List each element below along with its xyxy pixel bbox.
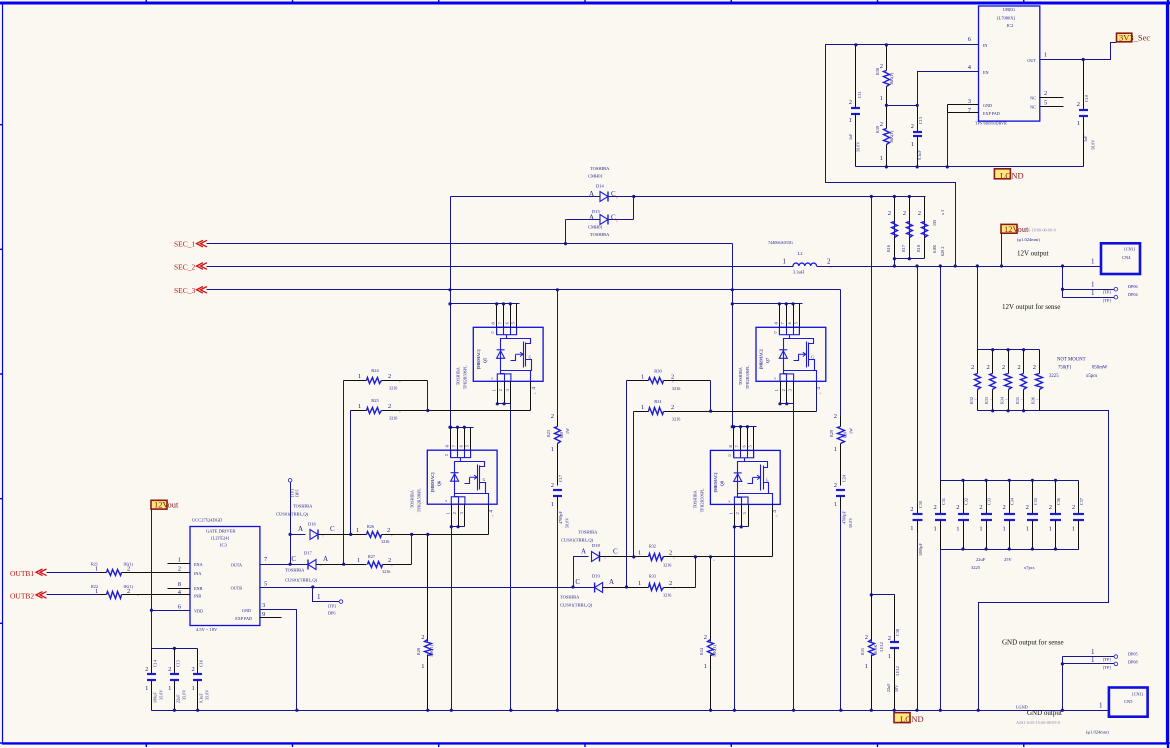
svg-text:UCC27524DGD: UCC27524DGD: [192, 518, 223, 523]
svg-text:1: 1: [1077, 120, 1080, 127]
svg-text:2: 2: [956, 504, 959, 511]
svg-text:C24: C24: [842, 474, 847, 482]
svg-text:2: 2: [934, 504, 937, 511]
svg-text:2: 2: [551, 482, 554, 489]
svg-text:2: 2: [178, 566, 181, 573]
svg-text:36K(F): 36K(F): [889, 72, 894, 85]
node LGND label top: [994, 169, 1010, 179]
svg-text:≡: ≡: [776, 514, 778, 518]
svg-text:—: —: [1035, 397, 1040, 401]
svg-text:2: 2: [888, 210, 891, 217]
svg-text:2: 2: [1077, 101, 1080, 108]
svg-text:2: 2: [551, 413, 554, 420]
svg-text:≡: ≡: [713, 559, 715, 563]
svg-text:CN5: CN5: [1124, 699, 1133, 704]
svg-text:22uF: 22uF: [976, 557, 986, 562]
svg-text:1: 1: [357, 557, 360, 564]
svg-text:3: 3: [262, 602, 265, 609]
svg-text:1: 1: [1026, 526, 1029, 533]
svg-text:DP5: DP5: [295, 490, 300, 497]
svg-text:1: 1: [445, 512, 450, 514]
svg-text:1: 1: [910, 525, 913, 532]
svg-text:≡: ≡: [399, 380, 401, 384]
resistor R33 not-mount: [992, 350, 994, 374]
svg-text:Q6: Q6: [436, 481, 441, 486]
wire OUTA: [260, 564, 309, 566]
svg-text:12V output: 12V output: [1017, 250, 1049, 258]
node 12Vout label IC3: [151, 500, 167, 509]
svg-text:R33: R33: [649, 574, 656, 579]
svg-text:Q8: Q8: [719, 481, 724, 486]
svg-text:C35: C35: [1033, 498, 1038, 505]
svg-text:GND output: GND output: [1027, 709, 1062, 717]
svg-text:1: 1: [1091, 289, 1095, 297]
svg-text:1: 1: [641, 373, 644, 380]
resistor R36: [871, 595, 873, 642]
svg-text:1: 1: [888, 653, 891, 660]
wire D15 anode to SEC_1: [565, 220, 567, 244]
svg-text:2: 2: [1072, 504, 1075, 511]
capacitor C35: [1032, 481, 1034, 514]
svg-text:IC2: IC2: [1007, 23, 1014, 28]
svg-text:2: 2: [903, 210, 906, 217]
svg-text:R36: R36: [1031, 397, 1036, 404]
wire SEC_2 to L2: [207, 266, 794, 268]
wire ENB stub: [168, 588, 191, 590]
svg-text:3V3_Sec: 3V3_Sec: [1119, 33, 1150, 43]
svg-text:1: 1: [1002, 526, 1005, 533]
wire R16-R18 bottom bus: [895, 258, 925, 260]
svg-text:A: A: [581, 548, 586, 556]
svg-text:2: 2: [834, 482, 837, 489]
svg-text:SEC_3: SEC_3: [174, 286, 196, 295]
wire 12V sense: [1062, 267, 1064, 298]
svg-text:A2S1-0:05-15:00-00-03-0: A2S1-0:05-15:00-00-03-0: [1016, 720, 1060, 725]
wire cap bank bottom to GND: [940, 550, 942, 711]
svg-text:[CN1]: [CN1]: [1124, 247, 1135, 252]
svg-text:C34: C34: [1010, 497, 1015, 505]
svg-text:S: S: [491, 376, 493, 380]
svg-text:LGND: LGND: [900, 714, 924, 724]
svg-text:1: 1: [168, 685, 171, 692]
svg-text:10K(1): 10K(1): [429, 644, 434, 657]
svg-text:C: C: [330, 525, 335, 533]
svg-text:C13: C13: [918, 117, 923, 124]
svg-text:TOSHIBA: TOSHIBA: [590, 166, 610, 171]
svg-text:4: 4: [488, 510, 494, 513]
svg-text:≡: ≡: [673, 557, 675, 561]
svg-text:NOT MOUNT: NOT MOUNT: [1057, 358, 1086, 363]
svg-text:UREG: UREG: [1003, 7, 1016, 12]
capacitor C30: [917, 267, 919, 505]
svg-text:C16: C16: [199, 660, 204, 667]
svg-text:2: 2: [911, 123, 914, 130]
svg-text:IC3: IC3: [220, 543, 228, 548]
svg-text:TOSHIBA: TOSHIBA: [293, 504, 313, 509]
svg-text:[TP]: [TP]: [1103, 657, 1111, 662]
svg-text:1uF: 1uF: [848, 133, 853, 140]
svg-text:(φ1.024mm): (φ1.024mm): [1086, 730, 1109, 735]
svg-text:1: 1: [638, 580, 641, 587]
svg-text:EXP PAD: EXP PAD: [235, 616, 252, 621]
svg-text:4700pF: 4700pF: [558, 511, 563, 524]
svg-text:1: 1: [178, 556, 181, 563]
svg-text:2: 2: [1017, 364, 1020, 371]
svg-text:GND: GND: [983, 103, 992, 108]
svg-text:2: 2: [1026, 504, 1029, 511]
svg-text:NC: NC: [1030, 105, 1036, 110]
resistor R26: [367, 532, 382, 538]
svg-text:2: 2: [865, 634, 868, 641]
svg-text:C17: C17: [558, 475, 563, 482]
svg-text:2: 2: [979, 504, 982, 511]
svg-text:1: 1: [641, 404, 644, 411]
svg-text:2: 2: [669, 580, 672, 587]
svg-text:Q5: Q5: [482, 358, 487, 363]
capacitor C15: [174, 649, 176, 674]
svg-text:2: 2: [910, 506, 913, 513]
svg-text:≡: ≡: [672, 380, 674, 384]
svg-text:CN4: CN4: [1122, 255, 1131, 260]
svg-text:A: A: [589, 190, 594, 198]
svg-text:≡: ≡: [391, 564, 393, 568]
svg-text:≡: ≡: [399, 410, 401, 414]
svg-text:R25: R25: [371, 398, 379, 403]
svg-text:3216: 3216: [382, 569, 390, 574]
svg-text:≡: ≡: [673, 587, 675, 591]
svg-text:A: A: [323, 555, 328, 563]
wire EXP PAD stub: [260, 617, 282, 619]
resistor R31: [634, 411, 649, 413]
wire Q7 source down: [793, 404, 795, 711]
svg-text:(φ1.024mm): (φ1.024mm): [1017, 237, 1040, 242]
wire cap bank top feed: [940, 267, 942, 481]
resistor R29 snubber right: [840, 290, 842, 416]
svg-text:[TP]: [TP]: [1103, 665, 1111, 670]
svg-text:1: 1: [911, 141, 914, 148]
svg-text:2: 2: [971, 364, 974, 371]
svg-text:2: 2: [452, 512, 457, 514]
svg-text:C33: C33: [987, 498, 992, 505]
svg-text:1: 1: [783, 258, 787, 266]
svg-text:2: 2: [781, 389, 786, 391]
wire R25 vert: [350, 411, 352, 535]
resistor R33: [649, 584, 664, 591]
svg-text:OUT: OUT: [1027, 58, 1036, 63]
svg-text:[MRMAC]: [MRMAC]: [430, 472, 435, 492]
resistor R18: [924, 197, 926, 259]
transistor Q5: [455, 304, 543, 411]
resistor R28: [427, 535, 429, 642]
wire Q7 top bus: [733, 303, 803, 305]
svg-text:1: 1: [1091, 281, 1095, 289]
test pad DP5: [288, 479, 292, 483]
svg-text:A: A: [609, 578, 614, 586]
svg-text:2: 2: [880, 121, 883, 128]
wire IC3 GND: [260, 610, 297, 711]
svg-text:C30: C30: [918, 501, 923, 508]
svg-text:750(F): 750(F): [1058, 366, 1071, 371]
svg-text:2: 2: [888, 635, 891, 642]
resistor R21: [47, 572, 100, 574]
svg-text:—: —: [973, 397, 978, 401]
svg-text:EXP PAD: EXP PAD: [983, 111, 1000, 116]
svg-text:2: 2: [127, 588, 130, 595]
wire 12V rail: [817, 266, 1102, 268]
node 3V3_Sec label: [1117, 33, 1132, 42]
svg-text:50.0V: 50.0V: [565, 518, 570, 528]
svg-text:1: 1: [834, 501, 837, 508]
svg-text:3216: 3216: [672, 417, 680, 422]
svg-text:C: C: [613, 548, 618, 556]
svg-text:2: 2: [387, 527, 390, 534]
svg-text:22uF: 22uF: [886, 683, 891, 692]
capacitor C32: [963, 481, 965, 514]
svg-text:620 2: 620 2: [940, 247, 945, 256]
svg-text:TPS7B6950DRVR: TPS7B6950DRVR: [975, 121, 1007, 126]
wire SEC_1: [207, 243, 733, 245]
wire SEC_3: [207, 289, 841, 291]
svg-text:1: 1: [979, 526, 982, 533]
svg-text:LGND: LGND: [1000, 170, 1024, 180]
svg-text:C15: C15: [175, 660, 180, 667]
wire LDO input rail from 12V: [826, 45, 979, 267]
svg-text:TOSHIBA: TOSHIBA: [692, 490, 697, 508]
wire VDD caps bus: [152, 648, 198, 650]
wire R30 vert: [626, 381, 628, 588]
svg-text:R39: R39: [875, 126, 880, 133]
svg-text:36.5K: 36.5K: [873, 645, 878, 655]
wire aux feed down column: [450, 197, 452, 428]
svg-text:L2: L2: [798, 251, 803, 256]
capacitor C38: [894, 595, 896, 643]
capacitor C13: [917, 106, 919, 133]
svg-text:G: G: [766, 478, 769, 482]
svg-text:EN: EN: [983, 70, 989, 75]
node LGND label bottom: [894, 713, 910, 723]
svg-text:R38: R38: [875, 68, 880, 75]
svg-text:R27: R27: [368, 554, 375, 559]
capacitor C34: [1009, 481, 1011, 514]
node 12Vout label: [1001, 224, 1017, 233]
svg-text:OUTB: OUTB: [231, 586, 243, 591]
svg-text:1: 1: [317, 593, 321, 601]
svg-text:[L7080X]: [L7080X]: [997, 16, 1015, 21]
svg-text:[TP]: [TP]: [1103, 290, 1111, 295]
svg-text:50.0V: 50.0V: [1091, 140, 1096, 150]
svg-text:2: 2: [498, 389, 503, 391]
wire Q7 gate up: [816, 382, 818, 412]
svg-text:R34: R34: [1000, 396, 1005, 404]
svg-text:2: 2: [145, 666, 148, 673]
svg-text:D18: D18: [592, 543, 600, 548]
svg-text:1: 1: [1049, 526, 1052, 533]
svg-text:GND output for sense: GND output for sense: [1002, 639, 1064, 647]
svg-text:2: 2: [127, 565, 130, 572]
wire NC stubs: [1040, 97, 1064, 99]
svg-text:TOSHIBA: TOSHIBA: [560, 595, 580, 600]
svg-text:2: 2: [918, 210, 921, 217]
svg-text:1: 1: [1044, 52, 1047, 59]
capacitor C24 snubber right: [836, 489, 845, 491]
svg-text:≡: ≡: [830, 265, 832, 269]
svg-text:[MRMAC]: [MRMAC]: [476, 349, 481, 369]
svg-text:S: S: [445, 499, 447, 503]
transistor Q7: [738, 304, 826, 412]
resistor R25: [351, 410, 367, 412]
svg-text:≡: ≡: [137, 571, 139, 575]
svg-text:TOSHIBA: TOSHIBA: [409, 490, 414, 508]
svg-text:1: 1: [704, 663, 707, 670]
svg-text:2: 2: [421, 634, 424, 641]
svg-text:4.5V ~ 18V: 4.5V ~ 18V: [196, 627, 218, 632]
op IC2 regulator box: [979, 6, 1040, 121]
svg-text:R16: R16: [886, 245, 891, 252]
svg-text:x 3: x 3: [940, 210, 945, 215]
svg-text:850mW: 850mW: [1092, 366, 1108, 371]
svg-text:4: 4: [772, 510, 778, 513]
svg-text:D19: D19: [592, 574, 600, 579]
wire R24 down join: [427, 381, 429, 411]
svg-text:C31: C31: [941, 498, 946, 505]
svg-text:ENB: ENB: [194, 586, 203, 591]
svg-text:C32: C32: [964, 498, 969, 505]
svg-text:[L2TE24]: [L2TE24]: [211, 536, 229, 541]
svg-text:3216: 3216: [663, 593, 671, 598]
svg-text:C: C: [575, 578, 580, 586]
svg-text:1: 1: [880, 95, 883, 102]
svg-text:S: S: [728, 499, 730, 503]
svg-text:A: A: [589, 214, 594, 222]
svg-text:620: 620: [559, 432, 564, 438]
wire R27 up: [411, 535, 413, 565]
svg-text:3 E12: 3 E12: [879, 642, 884, 652]
svg-text:1: 1: [358, 403, 361, 410]
svg-text:1: 1: [774, 389, 779, 391]
svg-text:3216: 3216: [663, 563, 671, 568]
svg-text:NC: NC: [1030, 96, 1036, 101]
svg-text:R28: R28: [416, 648, 421, 655]
svg-text:3216: 3216: [389, 386, 397, 391]
svg-text:2: 2: [834, 413, 837, 420]
wire GND rail: [152, 710, 1109, 712]
svg-text:35.0V: 35.0V: [205, 690, 210, 700]
svg-text:1M: 1M: [932, 220, 937, 226]
resistor R24: [344, 380, 367, 382]
svg-text:12Vout: 12Vout: [154, 500, 179, 510]
wire R24 vert: [343, 381, 345, 565]
capacitor C36: [1055, 481, 1057, 514]
svg-text:R33: R33: [984, 397, 989, 404]
svg-text:1: 1: [95, 565, 98, 572]
svg-text:D14: D14: [596, 184, 604, 189]
svg-text:C10: C10: [1084, 95, 1089, 102]
svg-text:C: C: [291, 555, 296, 563]
svg-text:1: 1: [491, 389, 496, 391]
wire OUT to 3V3_Sec: [1040, 43, 1117, 60]
svg-text:1: 1: [1091, 656, 1095, 664]
svg-text:≡: ≡: [320, 564, 322, 568]
svg-text:C36: C36: [1056, 498, 1061, 505]
capacitor C16: [197, 649, 199, 674]
resistor R39: [886, 106, 888, 129]
wire Q8 top bus: [733, 426, 757, 428]
resistor R38: [886, 45, 888, 71]
svg-text:5: 5: [264, 581, 267, 588]
svg-text:≡: ≡: [616, 196, 618, 200]
svg-text:744066A033G: 744066A033G: [768, 240, 793, 245]
svg-text:1: 1: [849, 117, 852, 124]
svg-text:INA: INA: [194, 571, 201, 576]
svg-text:x5pcs: x5pcs: [1086, 374, 1097, 379]
svg-text:DP05: DP05: [1128, 652, 1138, 657]
svg-text:1: 1: [95, 588, 98, 595]
capacitor C10: [1083, 60, 1085, 111]
wire Q5 source down: [510, 404, 512, 711]
svg-text:2: 2: [388, 373, 391, 380]
svg-text:1: 1: [880, 155, 883, 162]
svg-text:8: 8: [178, 581, 181, 588]
svg-text:R17: R17: [901, 245, 906, 252]
svg-text:50V: 50V: [894, 685, 899, 692]
wire GND sense: [1062, 657, 1064, 711]
resistor R23 snubber: [557, 290, 559, 416]
wire EN: [918, 72, 979, 106]
svg-text:3.3uH: 3.3uH: [793, 270, 805, 275]
svg-text:2: 2: [168, 666, 171, 673]
svg-text:1: 1: [191, 685, 194, 692]
transistor Q8: [692, 427, 780, 557]
svg-text:—: —: [1020, 397, 1025, 401]
svg-text:C37: C37: [1079, 498, 1084, 505]
svg-text:22uF: 22uF: [175, 694, 180, 703]
svg-text:D17: D17: [304, 551, 312, 556]
capacitor C11: [855, 45, 857, 109]
svg-text:Q7: Q7: [765, 358, 770, 363]
resistor R35 not-mount: [1023, 350, 1025, 374]
svg-text:R35: R35: [1015, 397, 1020, 404]
svg-text:[TP]: [TP]: [328, 604, 336, 609]
connector CN4: [1101, 243, 1140, 274]
wire VDD feed: [151, 510, 153, 649]
wire R38-R39 node: [887, 105, 918, 107]
svg-text:≡: ≡: [492, 514, 494, 518]
wire not-mount return: [979, 411, 1109, 711]
wire LDO ground bus: [856, 166, 1084, 168]
capacitor C33: [986, 481, 988, 514]
svg-text:D16: D16: [308, 522, 316, 527]
svg-text:R23: R23: [546, 430, 551, 437]
svg-text:5: 5: [1044, 100, 1047, 107]
svg-text:—: —: [1004, 397, 1009, 401]
wire GND EXPPAD: [948, 104, 979, 106]
svg-text:R34: R34: [699, 647, 704, 655]
svg-text:2: 2: [1049, 504, 1052, 511]
svg-text:R29: R29: [829, 430, 834, 437]
svg-text:50.0V: 50.0V: [856, 142, 861, 152]
connector CN5: [1109, 688, 1148, 717]
svg-text:3225: 3225: [1049, 374, 1059, 379]
svg-text:TPH2R506PL: TPH2R506PL: [745, 365, 750, 389]
svg-text:1: 1: [1091, 648, 1095, 656]
svg-text:10K(1): 10K(1): [712, 644, 717, 657]
wire not-mount feed: [977, 267, 979, 350]
svg-text:IN: IN: [983, 43, 987, 48]
svg-text:INB: INB: [194, 593, 201, 598]
svg-text:≡: ≡: [391, 534, 393, 538]
svg-text:1: 1: [421, 663, 424, 670]
svg-text:2: 2: [1033, 364, 1036, 371]
